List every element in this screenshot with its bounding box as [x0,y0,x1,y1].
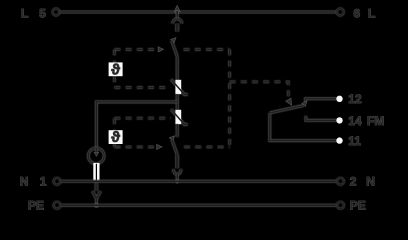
chevron to PE [92,191,100,199]
terminal 2 (N right circle) [337,178,344,185]
wire stub below N rail [95,181,99,191]
wire into spark gap [95,148,98,152]
svg-text:L: L [368,6,375,20]
arrow at switch 1 tip [171,38,176,43]
node: rail junction dot [176,10,179,13]
plug pin bar (top) [175,24,179,32]
svg-text:ϑ: ϑ [111,129,120,146]
wire chevron to PE rail [95,199,98,205]
remote contact 12 wire [305,99,337,103]
dashed box2 bottom edge with actuator arrow [114,144,162,149]
terminal 5 (top left circle) [53,9,60,16]
svg-text:14: 14 [348,114,362,128]
terminal dot 14 [336,117,342,123]
dashed box1 left edge [113,49,116,87]
plug socket dome (top) [173,19,182,24]
dashed right vertical [228,49,231,146]
wire N rail [61,180,337,183]
varistor U1 diagonal [171,79,188,94]
svg-text:ϑ: ϑ [111,61,120,78]
dashed box2 left edge [113,118,116,147]
label 6 L (top right) [354,6,376,20]
dashed box2 top edge [114,117,171,120]
spark gap circle [88,148,104,164]
terminal 6 (top right circle) [337,9,344,16]
varistor U2 diagonal under-rim [171,109,188,124]
svg-text:PE: PE [28,198,44,212]
wire PE rail [61,204,337,207]
svg-text:FM: FM [367,114,384,128]
wire varistor2 to switch2 [176,124,179,137]
relay blade [270,101,307,113]
terminal PE right circle [337,202,344,209]
node: N rail junction dot [176,180,179,183]
svg-text:12: 12 [348,92,362,106]
terminal dot 11 [336,137,342,143]
wire varistor1 to varistor2 [176,94,179,110]
label 11 [348,134,361,148]
svg-text:11: 11 [348,134,361,148]
label 2 N (bottom right) [350,175,375,189]
terminal dot 12 [336,96,342,102]
svg-text:PE: PE [350,198,366,212]
svg-text:2: 2 [350,175,357,189]
svg-text:5: 5 [39,6,46,20]
label PE (left) [28,198,44,212]
label 12 [348,92,362,106]
dashed box1 bottom edge [114,86,170,89]
plug socket cup (bottom) [173,169,181,174]
dashed box2 bottom edge right part [184,145,230,148]
wire stub below junction [176,12,179,19]
remote contact 14 wire [306,116,337,121]
wire branch line to spark gap [96,102,177,148]
terminal 1 (N left circle) [54,178,61,185]
varistor U1 body [175,80,181,94]
disconnect switch 2 blade [172,140,177,155]
thermal box 1 [109,61,123,78]
wire through isolation block [95,164,97,182]
plug pin bar (bottom) [175,155,179,169]
varistor U2 diagonal [171,109,188,124]
label L 5 (top left) [21,6,46,20]
arrow above rail junction [174,5,180,11]
label PE (right) [350,198,366,212]
remote contact 11 wire [270,113,337,141]
node: PE junction dot [94,203,98,207]
arrow at switch 2 tip [169,136,174,141]
svg-text:N: N [366,175,375,189]
dashed box1 top edge with actuator arrow [114,47,163,52]
disconnect switch 1 blade [172,41,178,57]
arrow inside spark gap [94,152,98,156]
varistor U2 body [175,110,181,124]
isolation block (white) [93,163,99,181]
label N 1 (bottom left) [20,175,47,189]
dashed linkage to remote contact [230,82,292,105]
svg-text:1: 1 [40,175,47,189]
label 14 FM [348,114,384,128]
varistor U1 diagonal under-rim [171,79,188,94]
thermal box 2 [109,129,123,146]
terminal PE left circle [54,202,61,209]
svg-text:6: 6 [354,6,361,20]
wire switch1 to varistor1 [176,57,179,80]
svg-text:N: N [20,175,29,189]
dashed box1 top edge right part [184,48,230,51]
wire top rail L [60,11,337,14]
svg-text:L: L [21,6,28,20]
wire cup to N rail [176,174,179,181]
